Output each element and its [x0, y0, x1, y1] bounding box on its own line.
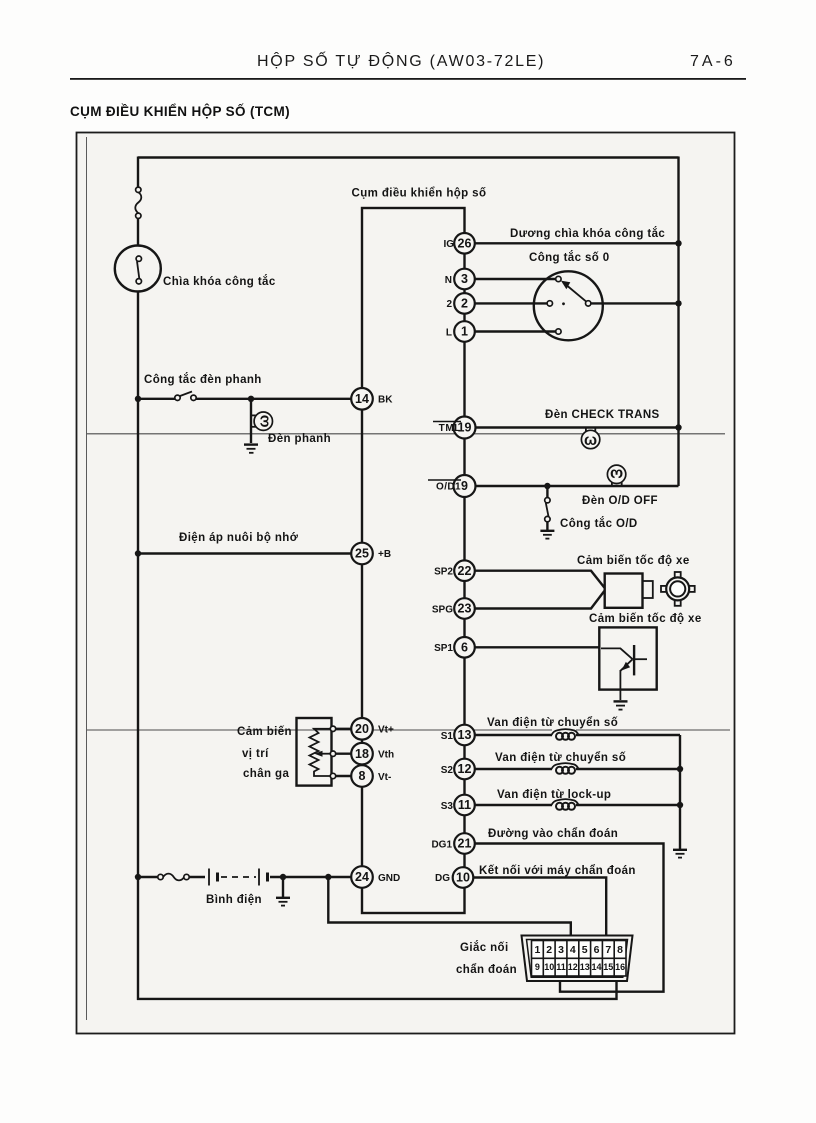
svg-text:Chìa khóa công tắc: Chìa khóa công tắc: [163, 275, 276, 288]
wire: Vth stub: [336, 753, 353, 755]
DLC pin numbers row1: [534, 944, 623, 956]
svg-text:S3: S3: [441, 801, 454, 812]
svg-text:26: 26: [458, 237, 472, 251]
svg-text:10: 10: [544, 962, 554, 972]
svg-text:SPG: SPG: [432, 605, 453, 616]
wire: O/D1 row: [476, 485, 679, 487]
svg-text:S2: S2: [441, 765, 454, 776]
svg-text:Van điện từ chuyển số: Van điện từ chuyển số: [487, 717, 618, 729]
svg-text:Công tắc đèn phanh: Công tắc đèn phanh: [144, 373, 262, 386]
svg-text:3: 3: [558, 944, 564, 956]
svg-text:2: 2: [461, 297, 468, 311]
svg-text:1: 1: [534, 944, 540, 956]
svg-text:14: 14: [591, 962, 601, 972]
wire: SP1 row: [475, 646, 602, 648]
svg-text:13: 13: [458, 728, 472, 742]
terminal 18: [351, 743, 394, 765]
terminal 19: [433, 417, 476, 439]
svg-text:Đèn O/D OFF: Đèn O/D OFF: [582, 495, 658, 507]
speed sensor SP1 box: [599, 627, 656, 700]
terminal 20: [351, 718, 394, 740]
node: DLC feed tap: [325, 874, 331, 880]
wire: bottom bus to DLC pin16: [137, 980, 617, 999]
node: +B row on left riser: [135, 550, 141, 556]
DLC pin numbers row2: [535, 962, 625, 972]
wire: tap down and across to DLC pin5: [328, 877, 571, 936]
lamp O/D OFF: [607, 465, 625, 486]
node: S3 joins return riser: [677, 802, 683, 808]
thin page line lower: [87, 729, 730, 731]
terminal 9: [428, 475, 476, 497]
svg-text:12: 12: [568, 962, 578, 972]
wire: SP2 to sensor: [475, 571, 605, 588]
svg-text:CỤM ĐIỀU KHIỂN HỘP SỐ (TCM): CỤM ĐIỀU KHIỂN HỘP SỐ (TCM): [70, 104, 290, 119]
svg-text:10: 10: [456, 871, 470, 885]
solenoid coil S3: [552, 798, 579, 811]
terminal 1: [446, 321, 475, 342]
terminal 6: [434, 637, 475, 658]
svg-text:Đường vào chẩn đoán: Đường vào chẩn đoán: [488, 828, 618, 840]
terminal 14: [351, 388, 393, 410]
wire: battery row: [138, 876, 362, 878]
wire: DG row to DLC pin7: [474, 878, 607, 937]
svg-text:+B: +B: [378, 549, 391, 560]
terminal 25: [351, 543, 391, 565]
svg-text:Công tắc O/D: Công tắc O/D: [560, 517, 638, 530]
svg-text:14: 14: [355, 392, 369, 406]
svg-text:6: 6: [461, 641, 468, 655]
svg-text:Công tắc số 0: Công tắc số 0: [529, 251, 610, 264]
svg-text:1: 1: [461, 325, 468, 339]
node: IG joins right riser: [675, 240, 681, 246]
ground (O/D switch): [540, 531, 554, 539]
terminal 12: [441, 759, 475, 780]
wire: SPG to sensor: [475, 591, 605, 609]
svg-text:6: 6: [594, 944, 600, 956]
solenoid coil S2: [552, 762, 579, 775]
svg-text:9: 9: [535, 962, 540, 972]
node: battery row on left riser: [135, 874, 141, 880]
wire: riser between fuse and key switch: [137, 219, 139, 247]
svg-text:2: 2: [546, 944, 552, 956]
wire: brake row: [138, 398, 362, 400]
svg-text:7: 7: [605, 944, 611, 956]
svg-text:2: 2: [446, 299, 452, 310]
terminal 24: [351, 866, 400, 888]
brake light switch: [175, 392, 196, 404]
wire: top bus from left riser to right riser: [138, 156, 679, 158]
svg-text:16: 16: [615, 962, 625, 972]
fuse F1 (vertical): [135, 187, 141, 218]
svg-text:15: 15: [603, 962, 613, 972]
svg-text:DG1: DG1: [431, 840, 452, 851]
svg-text:Giắc nối: Giắc nối: [460, 941, 509, 954]
terminal 21: [431, 833, 474, 854]
svg-text:18: 18: [355, 747, 369, 761]
svg-text:Kết nối với máy chẩn đoán: Kết nối với máy chẩn đoán: [479, 865, 636, 877]
svg-text:Vth: Vth: [378, 750, 394, 761]
svg-text:DG: DG: [435, 873, 450, 884]
svg-text:13: 13: [580, 962, 590, 972]
page header text: [257, 50, 736, 70]
svg-text:25: 25: [355, 547, 369, 561]
svg-text:23: 23: [458, 602, 472, 616]
svg-text:Cảm biến tốc độ xe: Cảm biến tốc độ xe: [589, 613, 702, 625]
terminal 23: [432, 598, 475, 619]
svg-text:20: 20: [355, 722, 369, 736]
ground (brake lamp): [244, 445, 258, 453]
brake lamp: [251, 412, 273, 430]
fuse F2 (horizontal): [158, 872, 189, 882]
svg-text:Vt+: Vt+: [378, 725, 394, 736]
O/D switch: [545, 486, 550, 530]
wire: Vt+ stub: [336, 728, 353, 730]
svg-text:SP2: SP2: [434, 567, 453, 578]
svg-text:chẩn đoán: chẩn đoán: [456, 964, 517, 976]
svg-text:S1: S1: [441, 731, 454, 742]
solenoid coil S1: [552, 728, 579, 741]
wire: drop to brake lamp ground: [250, 399, 252, 443]
svg-text:SP1: SP1: [434, 643, 453, 654]
ignition key switch: [115, 246, 161, 292]
node: common joins right riser: [675, 300, 681, 306]
ground (battery): [276, 898, 290, 906]
svg-text:chân ga: chân ga: [243, 768, 289, 780]
svg-text:7A-6: 7A-6: [690, 53, 736, 70]
svg-text:ω: ω: [610, 465, 623, 482]
svg-text:BK: BK: [378, 395, 393, 406]
DLC pin grid: [532, 941, 627, 977]
thin page line upper: [87, 433, 725, 435]
battery: [205, 869, 270, 886]
wire: switch common to right riser: [591, 302, 679, 304]
gear position switch: [534, 271, 603, 340]
terminal 10: [435, 867, 473, 888]
svg-text:Điện áp nuôi bộ nhớ: Điện áp nuôi bộ nhớ: [179, 532, 299, 544]
svg-text:O/D1: O/D1: [436, 482, 461, 493]
terminal 13: [441, 725, 475, 746]
svg-text:N: N: [445, 275, 452, 286]
node: S2 joins return riser: [677, 766, 683, 772]
wire: solenoid return riser: [679, 735, 681, 849]
node: brake row on left riser: [135, 396, 141, 402]
node: battery ground tap: [280, 874, 286, 880]
wire: S3 row: [475, 804, 680, 806]
svg-text:Dương chìa khóa công tắc: Dương chìa khóa công tắc: [510, 227, 665, 240]
svg-text:4: 4: [570, 944, 576, 956]
svg-text:9: 9: [461, 479, 468, 493]
svg-text:11: 11: [556, 962, 566, 972]
terminal 11: [441, 795, 475, 816]
ground (SP1): [614, 701, 628, 709]
svg-text:HỘP SỐ TỰ ĐỘNG (AW03-72LE): HỘP SỐ TỰ ĐỘNG (AW03-72LE): [257, 50, 545, 70]
terminal 8: [351, 765, 391, 787]
svg-text:GND: GND: [378, 873, 400, 884]
svg-text:L: L: [446, 328, 452, 339]
svg-text:11: 11: [458, 798, 471, 812]
wire: S2 row: [475, 768, 680, 770]
svg-text:22: 22: [458, 564, 472, 578]
diagnostic connector DLC: [522, 936, 633, 982]
lamp CHECK TRANS: [581, 428, 599, 449]
svg-text:Cụm điều khiển hộp số: Cụm điều khiển hộp số: [352, 188, 487, 200]
svg-text:Đèn CHECK TRANS: Đèn CHECK TRANS: [545, 409, 660, 421]
svg-text:Vt-: Vt-: [378, 772, 391, 783]
svg-text:vị trí: vị trí: [242, 748, 269, 760]
wire: left riser lower: [137, 292, 139, 1001]
wire: IG row to right riser: [475, 242, 679, 244]
node: TML joins right riser: [675, 424, 681, 430]
node: O/D switch tap: [544, 483, 550, 489]
vehicle speed sensor body: [605, 574, 653, 608]
wire: left riser upper: [137, 157, 139, 188]
wire: Vt- stub: [336, 775, 353, 777]
svg-text:IG: IG: [443, 239, 454, 250]
svg-text:Cảm biến: Cảm biến: [237, 726, 292, 738]
reluctor ring: [661, 572, 695, 606]
wire: +B row: [138, 552, 362, 554]
svg-text:24: 24: [355, 870, 369, 884]
svg-text:TML: TML: [439, 423, 461, 434]
terminal 3: [445, 269, 475, 290]
wire: 2 row to switch: [475, 302, 547, 304]
ground (solenoid return): [673, 850, 687, 858]
terminal 2: [446, 293, 474, 314]
svg-text:3: 3: [461, 272, 468, 286]
svg-text:Cảm biến tốc độ xe: Cảm biến tốc độ xe: [577, 555, 690, 567]
svg-text:21: 21: [458, 837, 472, 851]
wire: N row to switch: [475, 278, 556, 280]
node: brake lamp tap: [248, 396, 254, 402]
svg-text:Bình điện: Bình điện: [206, 894, 262, 906]
terminal 26: [443, 233, 474, 254]
wire: S1 row: [475, 734, 680, 736]
wire: right riser: [677, 157, 679, 487]
wire: drop to battery ground: [282, 877, 284, 897]
TCM box: [362, 208, 465, 913]
diagram frame: [77, 133, 735, 1034]
svg-text:ω: ω: [584, 432, 597, 449]
svg-text:8: 8: [359, 769, 366, 783]
svg-text:ω: ω: [255, 415, 272, 428]
svg-text:12: 12: [458, 762, 472, 776]
terminal 22: [434, 560, 475, 581]
wire: L row to switch: [475, 330, 556, 332]
svg-text:8: 8: [617, 944, 623, 956]
wire: TML row: [476, 426, 679, 428]
wire: DG1 row to DLC: [475, 844, 664, 992]
svg-text:5: 5: [582, 944, 588, 956]
svg-text:Đèn phanh: Đèn phanh: [268, 433, 331, 445]
header rule: [70, 78, 746, 80]
throttle position sensor box: [297, 718, 336, 786]
